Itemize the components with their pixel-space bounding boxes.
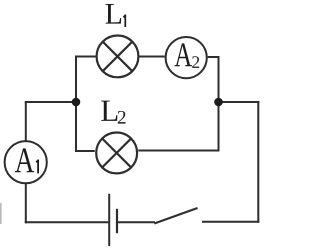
lamp L1 xyxy=(97,36,139,78)
label L1 xyxy=(106,4,122,24)
switch S (open blade) xyxy=(154,208,197,224)
label A2 subscript 2 xyxy=(192,56,199,68)
wire: battery to switch horizontal xyxy=(118,221,155,223)
wire: A2 to right inner vertical xyxy=(208,56,220,58)
wire: left outer vertical below A1 xyxy=(25,184,27,223)
wire: right horizontal from node B to outer column xyxy=(219,101,260,103)
label A1 subscript 1 xyxy=(36,160,38,173)
wire: L2 branch left horizontal xyxy=(75,150,95,152)
wire: bottom horizontal to battery xyxy=(25,221,109,223)
wire: right inner vertical xyxy=(218,56,220,152)
battery cell: short plate (-) xyxy=(116,209,118,233)
wire: L2 branch right horizontal xyxy=(138,150,219,152)
wire: right outer vertical xyxy=(257,101,259,223)
ammeter A2 xyxy=(166,37,207,78)
node B (right junction dot) xyxy=(214,98,223,107)
label A2 (inside meter) xyxy=(175,43,193,66)
battery cell: long plate (+) xyxy=(108,194,110,246)
scan artifact: faint grey smudge at left edge xyxy=(0,203,2,224)
wire: left outer vertical above A1 xyxy=(25,101,27,141)
wire: L1 branch left horizontal xyxy=(75,56,96,58)
wire: left inner vertical (node junction riser) xyxy=(75,56,77,153)
node A (left junction dot) xyxy=(72,98,81,107)
wire: L1 to A2 horizontal xyxy=(139,56,164,58)
wire: switch stub to right outer column xyxy=(202,221,259,223)
ammeter A1 xyxy=(5,141,47,183)
label L2 subscript 2 xyxy=(118,111,126,124)
wire: left horizontal from node A to outer column xyxy=(25,101,76,103)
label L1 subscript 1 xyxy=(124,15,126,27)
label A1 (inside meter) xyxy=(15,148,34,172)
label L2 xyxy=(101,101,117,121)
lamp L2 xyxy=(96,133,137,174)
